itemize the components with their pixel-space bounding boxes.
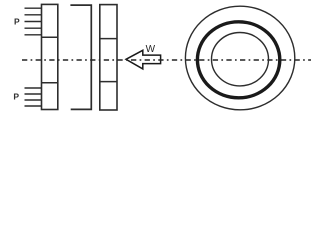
svg-text:W: W — [146, 44, 156, 55]
plate 1 divider lower — [42, 82, 58, 84]
pressure plate 1 (left, segmented) — [42, 4, 58, 109]
centerline (dash-dot axis, drawn over arrow) — [22, 59, 311, 61]
friction ring (thick circle) — [197, 22, 279, 98]
plate 2 divider upper — [100, 38, 117, 40]
plate 1 divider upper — [42, 36, 58, 38]
inner circle — [212, 33, 269, 86]
clamp bracket (open left) — [70, 5, 91, 109]
flywheel outer circle — [185, 6, 294, 110]
distributed load comb (top), 5 lines — [25, 8, 43, 35]
block arrow W (points left) — [126, 50, 161, 69]
svg-text:P: P — [14, 17, 20, 27]
svg-text:P: P — [13, 92, 19, 102]
plate 2 divider lower — [100, 81, 117, 83]
distributed load comb (bottom), 4 lines — [25, 88, 43, 106]
pressure plate 2 (right, segmented) — [100, 5, 117, 110]
